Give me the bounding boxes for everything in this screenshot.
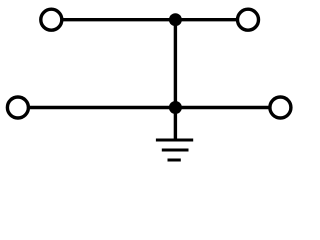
terminal circle (bottom-right) bbox=[270, 97, 291, 118]
wire (vertical bridge) bbox=[174, 20, 177, 140]
junction dot (top) bbox=[169, 13, 182, 26]
ground bar 3 (bottom, shortest) bbox=[168, 159, 181, 162]
ground bar 1 (top, widest) bbox=[156, 139, 193, 142]
wire (bottom horizontal) bbox=[28, 106, 270, 109]
terminal circle (bottom-left) bbox=[7, 97, 28, 118]
ground bar 2 (middle) bbox=[162, 149, 189, 152]
terminal circle (top-right) bbox=[238, 9, 259, 30]
wire (top horizontal) bbox=[62, 18, 238, 21]
terminal circle (top-left) bbox=[41, 9, 62, 30]
junction dot (bottom) bbox=[169, 101, 182, 114]
